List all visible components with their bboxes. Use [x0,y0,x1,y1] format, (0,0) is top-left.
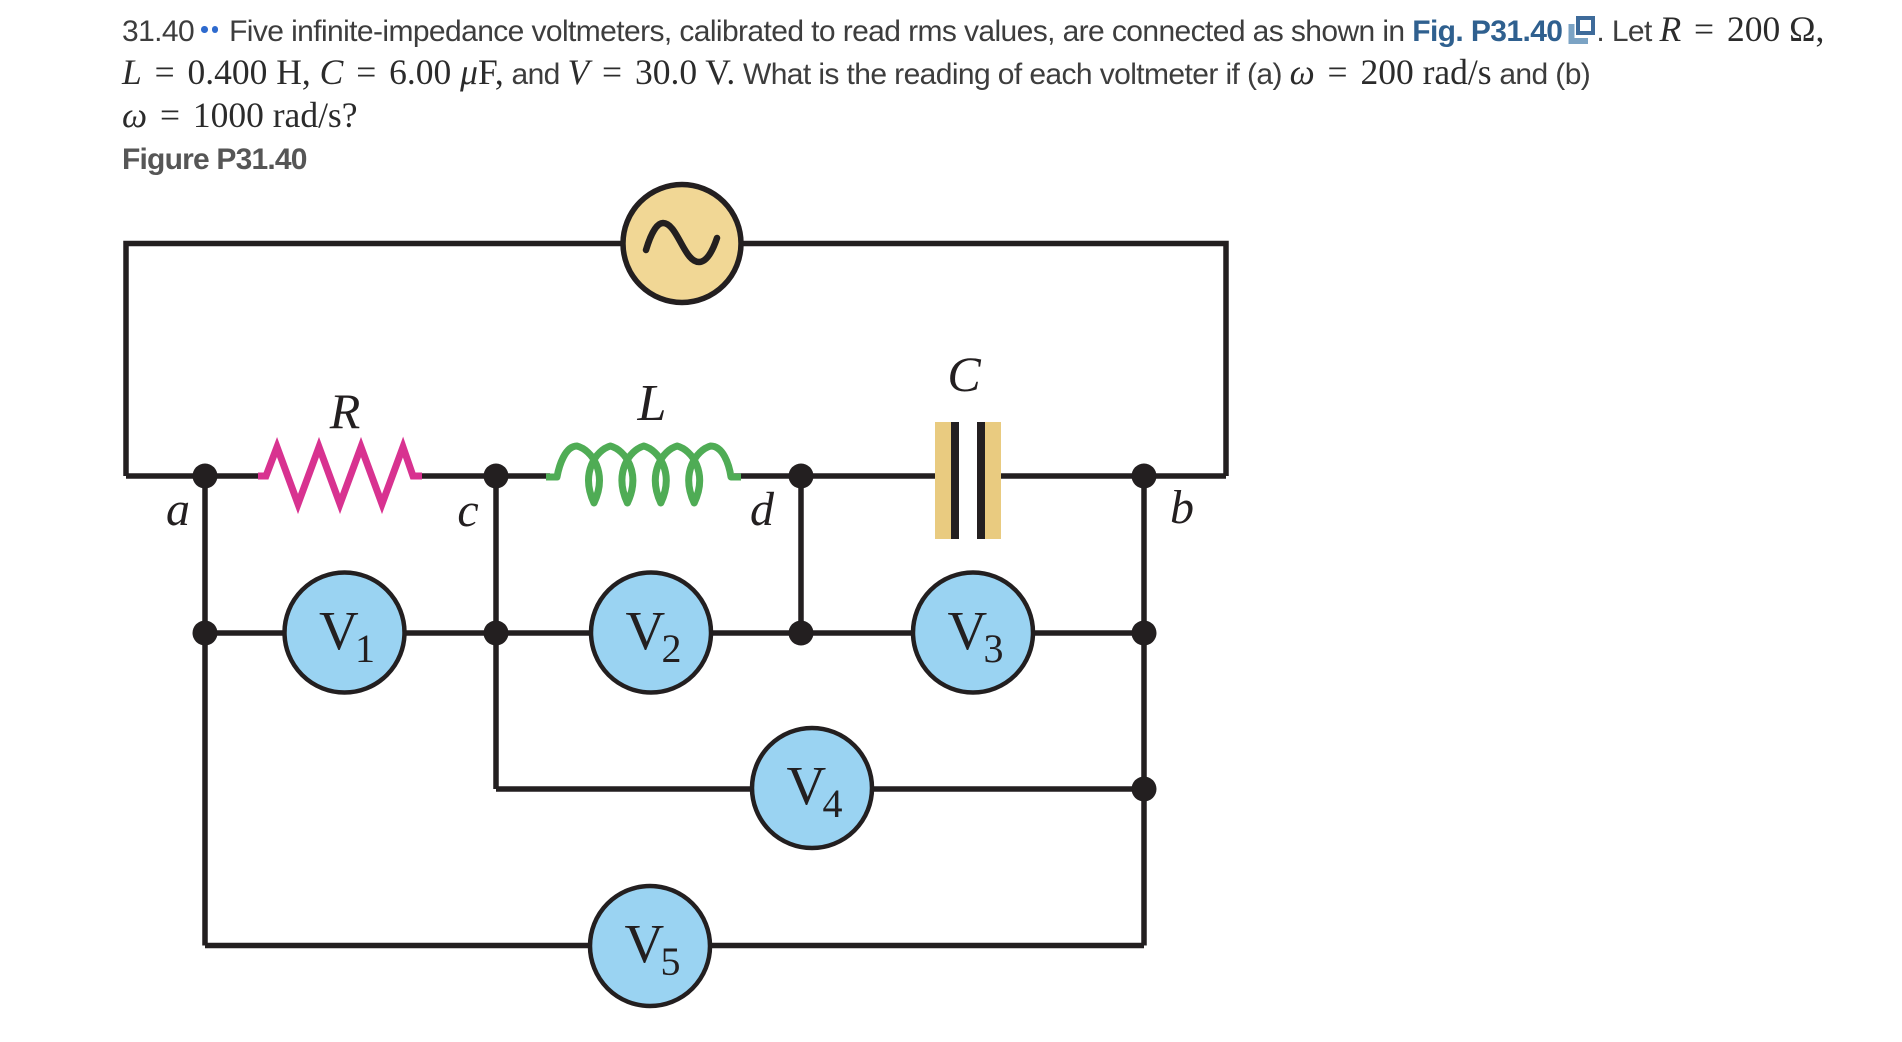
capacitor C (yellow bands + black plates) [935,422,1001,539]
problem text line 1 [122,12,1824,48]
wire: vertical from node c down to V4 row [493,476,499,789]
svg-text:2: 2 [662,626,682,671]
ac source [623,185,741,303]
svg-text:1: 1 [355,626,375,671]
figure caption [122,145,307,175]
svg-text:4: 4 [823,781,843,826]
wire: main horizontal a-to-resistor [126,473,262,479]
wire: resistor-to-inductor through node c [418,473,550,479]
svg-text:V: V [948,600,988,661]
problem text line 3 [122,98,358,134]
svg-text:V: V [626,600,666,661]
svg-text:3: 3 [984,626,1004,671]
resistor R (pink zigzag) [258,447,422,504]
svg-text:R: R [329,383,361,439]
wire: V5 row horizontal [205,943,1144,949]
voltmeter V1 [285,573,405,693]
svg-text:V: V [625,913,665,974]
wire: vertical from node d down to voltmeter row [798,476,804,633]
wire: vertical from node a down to V5 row [202,476,208,946]
node d [789,464,814,489]
node row1 left [193,621,218,646]
voltmeter V5 [590,886,710,1006]
svg-text:a: a [166,483,190,536]
node V4 right [1132,777,1157,802]
svg-text:5: 5 [661,939,681,984]
voltmeter V4 [752,728,872,848]
node row1 b [1132,621,1157,646]
svg-text:b: b [1170,481,1194,534]
node row1 c [484,621,509,646]
svg-text:d: d [750,483,775,536]
wire: inductor-to-capacitor through node d [734,473,953,479]
wire: capacitor-to-right-edge through node b [983,473,1226,479]
node a [193,464,218,489]
wire: vertical from node b down to V5 row [1141,476,1147,946]
node b [1132,464,1157,489]
voltmeter V2 [591,573,711,693]
node c [484,464,509,489]
node row1 d [789,621,814,646]
svg-text:L: L [637,375,667,432]
inductor L (green coil) [546,446,741,503]
svg-text:c: c [457,484,478,537]
wire: voltmeter row 1 horizontal [205,630,1144,636]
svg-text:V: V [319,600,359,661]
voltmeter V3 [913,573,1033,693]
problem text line 2 [122,55,1590,91]
svg-text:C: C [947,346,981,402]
svg-text:V: V [787,755,827,816]
wire: outer loop left vertical and top [126,244,1226,477]
wire: V4 row horizontal [496,786,1144,792]
